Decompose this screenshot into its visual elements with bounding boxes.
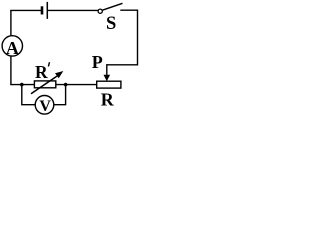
slider P stem wire <box>106 64 108 76</box>
wire: top-left horizontal to battery <box>10 9 41 11</box>
rheostat R' diagonal arrow shaft <box>31 75 59 94</box>
svg-text:R: R <box>35 62 48 82</box>
wire: rheostat left to left vertical <box>10 84 34 86</box>
svg-text:R: R <box>101 90 115 110</box>
wire: R left terminal to rheostat <box>56 84 97 86</box>
battery: long thin plate (positive) <box>46 2 48 19</box>
wire: top-right horizontal, right vertical, bottom horizontal to slider <box>107 10 138 65</box>
rheostat R' body <box>34 81 55 88</box>
svg-text:S: S <box>106 14 116 34</box>
junction dot (right of R') <box>64 83 68 87</box>
battery: short thick plate (negative) <box>41 6 44 14</box>
junction dot (left of R') <box>20 83 24 87</box>
switch pivot circle <box>98 9 102 13</box>
voltmeter body circle <box>35 96 54 115</box>
rheostat R' arrowhead <box>55 71 63 78</box>
label R' prime mark <box>48 62 49 66</box>
svg-text:V: V <box>39 98 51 115</box>
ammeter body circle <box>2 36 22 56</box>
switch blade (open) <box>102 3 122 10</box>
slider P arrowhead <box>104 75 111 82</box>
voltmeter parallel loop wire <box>22 85 66 105</box>
resistor R body <box>97 81 121 88</box>
svg-text:P: P <box>92 52 103 72</box>
wire: battery to switch <box>48 9 98 11</box>
wire: left vertical (top corner down through ammeter to middle wire) <box>10 10 12 84</box>
svg-text:A: A <box>6 38 19 58</box>
